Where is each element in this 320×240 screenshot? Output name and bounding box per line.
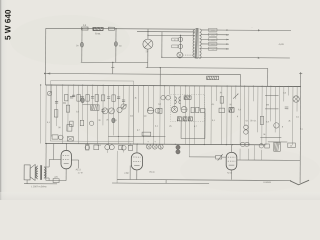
svg-text:5 W 640: 5 W 640 [3,9,12,40]
transformer T1 primary [193,30,195,57]
svg-text:~6,3V: ~6,3V [278,44,284,46]
svg-text:6: 6 [126,104,127,106]
dashed link switch [183,54,194,56]
left page edge shading [0,0,7,200]
svg-text:50: 50 [229,104,231,106]
wire stub x160 [159,68,161,86]
blob c83 [81,98,84,103]
svg-text:EL11: EL11 [150,172,156,174]
wire coil feed [83,104,91,106]
svg-text:5n: 5n [76,45,78,47]
wire V1 right lead [71,159,78,161]
wire third mains line [148,34,195,36]
wire stub x167 [165,180,167,184]
pot with arrow [216,155,222,159]
fuse Si2 [178,44,182,48]
transformer tap 3 [201,38,229,40]
svg-text:0,1: 0,1 [254,120,257,122]
wire bottom left bus [46,180,66,182]
svg-text:0,1: 0,1 [212,104,215,106]
resistor box m222 [220,97,223,104]
elko pair [244,125,248,129]
resistor mains R2 [109,27,115,30]
box right label [288,143,296,148]
wire main bus [45,85,300,87]
bottom edge shading [0,192,320,200]
svg-text:AZ 11: AZ 11 [227,171,232,174]
choke hatched [274,142,281,151]
speaker cone [30,164,35,180]
capacitor c103 [101,109,104,111]
resistor rv3 [260,116,263,124]
junction cross [111,66,114,68]
bus junction dots [40,84,41,85]
tube V3 mixer [226,152,237,170]
capacitor C1 [80,42,83,47]
wire stub x131 [129,166,131,180]
hatched mains label [207,76,219,80]
svg-text:1M: 1M [144,116,147,118]
bottom bus dots [46,143,47,144]
wire corner x241 [240,75,242,86]
resistor 0,1 [54,110,58,117]
transformer T1 core [196,28,199,58]
wire mains bottom line [162,56,290,59]
junction mains bottom [179,57,180,58]
resistor below r88 [86,144,89,150]
wire bus y69 [146,67,268,70]
antenna trimmer [47,91,51,95]
wire bottom bus [45,144,265,145]
tube V2 output [131,153,142,170]
IF can dashed box [170,94,204,121]
svg-text:1k: 1k [220,92,222,94]
svg-text:2k: 2k [106,119,108,121]
resistor 470 [53,179,59,183]
speaker frame [24,165,30,180]
wire second mains line [137,31,195,33]
variable cap pair [102,108,108,114]
svg-text:8: 8 [282,126,283,128]
wire HT line right [229,29,291,31]
wire fuse column [179,35,181,52]
svg-text:0,3: 0,3 [266,121,269,123]
wire bus y73.5 [45,73,241,74]
coil m181 [179,97,181,104]
resistor mains R1 [82,27,89,30]
IF coil [91,105,100,111]
switch contact blob a [177,117,181,121]
arrow mains [258,57,260,59]
bottom comp row [85,145,89,149]
svg-text:0,1: 0,1 [300,129,303,131]
wire corner x268 [267,68,269,86]
wire speaker ground [26,180,28,184]
transformer tap 1 [201,29,229,31]
dial lamps La1 [143,39,153,49]
wire chevron feed [299,160,301,183]
transformer tap 4 [201,43,229,45]
arrow HT [258,29,260,31]
component row b [101,95,104,101]
left page edge line [0,0,1,200]
elko right [274,123,279,128]
output transformer primary [37,166,38,179]
blob m149 [158,108,162,113]
svg-text:U 307: U 307 [124,173,129,175]
svg-text:L 2567 m.Schw.: L 2567 m.Schw. [31,186,47,188]
trimmer box left [52,135,58,139]
comp group right a [241,142,245,146]
svg-text:U-Werte: U-Werte [263,181,272,184]
scan tilt group open [3,9,311,190]
wire HT vertical [299,74,302,160]
component row a [65,94,68,100]
shield box tuner [50,81,133,142]
capacitor c124 [122,99,125,101]
tube V1 top stub [65,144,67,151]
ground chevron [290,180,309,185]
wire top-left vertical [44,28,46,85]
IF tube circle a [171,106,177,112]
choke mains L1 [93,27,103,30]
variable cap symbol [121,104,126,109]
wire joining line [81,61,148,63]
tube V2 bottom stub [136,170,138,180]
wire mid line [108,135,165,137]
wire drop a [81,29,83,63]
lamp circle right [293,96,299,102]
transformer tap 5 [201,48,229,50]
dark cap pair [176,145,180,149]
coil hatch top [184,96,191,100]
resistor r68 [66,105,69,112]
wire U-link [180,121,182,139]
svg-text:1M: 1M [266,104,269,106]
tube V1 rectifier [61,150,72,168]
caps cluster [146,144,151,149]
svg-text:AZ11: AZ11 [76,168,82,171]
arrow pot m236 [233,94,238,99]
fuse Si1 [178,37,182,41]
comb of circuit wires [39,85,41,143]
node HT plus [300,72,302,75]
coupling box [67,125,72,132]
svg-text:50k: 50k [63,103,66,105]
wire OT to V1 upper [44,166,49,168]
paper mottle 1 [10,15,130,65]
svg-text:Dr: Dr [290,146,292,148]
wire stub x118 [116,151,118,183]
wire lamp bottom stub [147,49,149,67]
blob m230 [229,108,234,113]
switch contact blob b [183,117,187,121]
coil m175 [175,97,177,104]
svg-text:0,5: 0,5 [283,92,286,94]
resistor 4,7 horizontal [142,132,151,136]
capacitor right [285,106,289,108]
component row c [70,121,73,127]
wire long bottom [117,179,291,180]
tube circle m139 [147,107,153,113]
wire lamp top stub [147,29,149,39]
IF tube circle b [181,107,187,113]
wire drop b [115,29,117,63]
svg-text:30: 30 [98,120,100,122]
svg-text:2k: 2k [288,120,290,122]
wire stub junction [112,62,114,73]
wire segs to HT line [239,149,241,160]
output transformer core [39,165,41,180]
capacitor c57 [55,101,58,103]
svg-text:4,7 M: 4,7 M [78,172,83,174]
links bottom right [260,136,281,138]
transformer tap 2 [201,34,229,36]
lamp switch La2 [177,52,183,58]
capacitor C2 [114,42,117,47]
paper mottle 2 [180,148,320,192]
svg-text:0,2: 0,2 [158,104,161,106]
blob c114 [112,118,115,123]
svg-text:0,1: 0,1 [246,120,249,122]
svg-text:0,2: 0,2 [238,109,241,111]
wire top mains line [46,27,195,30]
box with X [67,137,73,142]
paper mottle 3 [70,70,250,150]
tube V3 top stub [231,145,233,153]
svg-text:0,1: 0,1 [114,120,117,122]
tube circle pair [161,96,165,100]
switch contact blob c [188,117,192,121]
bottom row stubs [106,149,108,153]
ladder rungs [265,94,278,96]
IF boxes [191,107,194,113]
svg-text:Entst.: Entst. [95,32,101,35]
wire second bottom [112,182,209,185]
svg-text:a w: a w [98,145,102,147]
wire switch column [161,32,163,57]
capacitor c74 [72,94,75,96]
tube V1 bottom stub [65,169,67,181]
wire OT primary up [53,144,55,160]
transformer T1 secondary [199,29,201,59]
svg-text:5n: 5n [119,45,121,47]
tube V2 top stub [136,144,138,153]
box m220 [219,108,225,113]
svg-text:3k: 3k [135,98,137,100]
wire V3 right lead [237,159,300,161]
svg-text:5k: 5k [263,134,265,136]
wire OT lower [44,177,49,179]
output transformer secondary [44,167,45,178]
